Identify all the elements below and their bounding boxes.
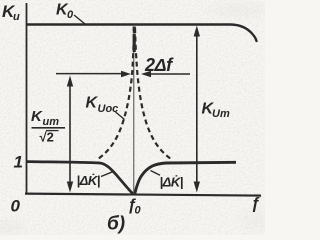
svg-text:|ΔK̇|: |ΔK̇| [160, 175, 183, 190]
svg-text:ƒ: ƒ [251, 196, 260, 213]
svg-text:u: u [13, 11, 20, 23]
svg-text:0: 0 [135, 205, 142, 217]
svg-text:Uoc: Uoc [98, 103, 119, 115]
svg-text:um: um [43, 116, 60, 128]
svg-text:1: 1 [14, 153, 23, 172]
svg-text:K: K [31, 108, 43, 125]
svg-text:Um: Um [212, 108, 230, 120]
svg-text:0: 0 [67, 9, 74, 21]
svg-text:√2: √2 [40, 130, 54, 145]
svg-text:2Δf: 2Δf [144, 55, 174, 75]
svg-text:0: 0 [11, 197, 21, 216]
svg-text:|ΔK̇|: |ΔK̇| [77, 173, 100, 188]
svg-text:б): б) [107, 214, 125, 235]
